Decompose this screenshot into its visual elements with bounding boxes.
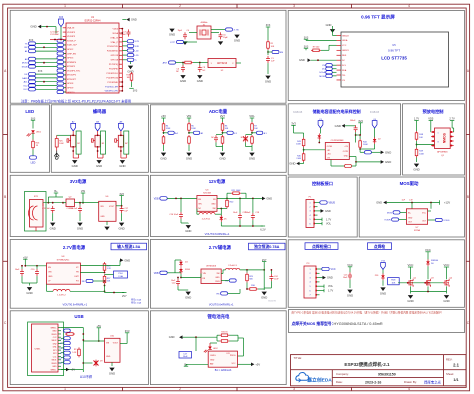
svg-text:+IN1: +IN1 bbox=[327, 154, 331, 156]
svg-text:SY6982QNC: SY6982QNC bbox=[57, 259, 70, 261]
svg-text:RUN: RUN bbox=[215, 281, 220, 283]
svg-text:GND: GND bbox=[30, 25, 36, 29]
ground left of crystal bbox=[169, 27, 174, 32]
svg-text:2: 2 bbox=[179, 4, 181, 8]
svg-text:3V3: 3V3 bbox=[291, 122, 296, 126]
svg-text:RES: RES bbox=[342, 55, 347, 57]
ground under C1 bbox=[267, 63, 269, 74]
svg-text:XTAL_P: XTAL_P bbox=[111, 41, 119, 44]
capacitor C24 bbox=[270, 274, 272, 277]
svg-text:2.7V: 2.7V bbox=[449, 117, 455, 121]
ground under C15 bbox=[50, 221, 55, 226]
wire U6 output bbox=[116, 205, 122, 207]
svg-text:I-1D: I-1D bbox=[135, 50, 140, 52]
transistor pack A8 bbox=[95, 135, 100, 147]
svg-text:GND: GND bbox=[106, 356, 111, 358]
svg-text:GND: GND bbox=[407, 299, 413, 303]
svg-text:+5V: +5V bbox=[161, 114, 166, 118]
svg-text:ANT: ANT bbox=[163, 62, 168, 65]
net port column inner bbox=[57, 39, 64, 42]
svg-text:SHELL: SHELL bbox=[51, 327, 57, 329]
flag VC1 pentagon charge bbox=[318, 121, 323, 129]
svg-text:GND: GND bbox=[380, 291, 386, 295]
svg-text:GND: GND bbox=[261, 296, 267, 300]
led LED2 charge indicator bbox=[208, 347, 212, 350]
svg-text:LED2: LED2 bbox=[213, 348, 218, 350]
port X_TN right of crystal bbox=[211, 29, 225, 31]
ic U2 ANT3216 antenna bbox=[208, 59, 236, 68]
capacitor C17 1uF bbox=[121, 206, 123, 209]
port EN bbox=[267, 51, 269, 53]
resistor R49 bbox=[416, 148, 418, 150]
svg-text:GND: GND bbox=[376, 201, 382, 205]
svg-text:VBUS: VBUS bbox=[51, 363, 57, 365]
svg-text:B: B bbox=[4, 195, 6, 199]
resistor R43 bbox=[303, 138, 305, 140]
svg-text:VDD3P3: VDD3P3 bbox=[67, 32, 76, 34]
wire charger right loop bbox=[238, 337, 244, 339]
svg-text:C19: C19 bbox=[409, 200, 414, 202]
svg-text:GND: GND bbox=[185, 296, 191, 300]
wire antenna net bbox=[176, 62, 184, 64]
svg-text:D+: D+ bbox=[60, 348, 62, 350]
svg-text:GND: GND bbox=[100, 216, 105, 218]
svg-text:Q1: Q1 bbox=[441, 155, 445, 157]
svg-text:SS8540: SS8540 bbox=[431, 260, 439, 262]
svg-text:2: 2 bbox=[309, 273, 310, 275]
svg-text:2: 2 bbox=[179, 387, 181, 391]
svg-text:OUTA: OUTA bbox=[327, 145, 333, 148]
svg-text:GND: GND bbox=[385, 150, 391, 154]
resistor R32 bbox=[220, 340, 222, 342]
section box ADC battery monitor bbox=[150, 105, 286, 173]
svg-text:Company:: Company: bbox=[336, 372, 349, 376]
svg-text:LED: LED bbox=[31, 162, 36, 165]
svg-text:GND: GND bbox=[211, 204, 216, 206]
ground flag top right of U1 bbox=[126, 18, 129, 22]
ground under C6 bbox=[180, 74, 185, 79]
U1 left pins bbox=[63, 27, 66, 29]
capacitor C14 1uF bbox=[79, 206, 81, 209]
svg-text:-IN1: -IN1 bbox=[327, 150, 330, 152]
svg-text:ESP32便携点焊机-2.1: ESP32便携点焊机-2.1 bbox=[344, 361, 390, 368]
svg-text:SDA: SDA bbox=[342, 69, 347, 72]
net flag +5V usb bottom bbox=[66, 368, 69, 372]
zener diode ZD1 bbox=[381, 275, 385, 278]
svg-text:AP30H80D: AP30H80D bbox=[437, 151, 448, 154]
wire input rail 2.7v bbox=[25, 265, 46, 267]
ground under C16 bbox=[186, 224, 191, 229]
svg-text:10uF: 10uF bbox=[15, 269, 20, 271]
ic U7 gate driver bbox=[406, 209, 427, 225]
svg-text:R21 100K: R21 100K bbox=[232, 190, 242, 192]
svg-text:2V7: 2V7 bbox=[220, 114, 225, 118]
svg-text:U10: U10 bbox=[110, 336, 115, 338]
section box capacitor charge control bbox=[288, 104, 400, 175]
svg-text:5: 5 bbox=[309, 286, 310, 288]
svg-text:SS34: SS34 bbox=[185, 269, 191, 271]
svg-text:D+: D+ bbox=[60, 338, 62, 340]
U1 right pins bbox=[119, 28, 122, 30]
svg-text:GND: GND bbox=[52, 366, 57, 368]
resistor R25 100K bbox=[55, 139, 58, 148]
svg-text:GND: GND bbox=[48, 276, 53, 278]
svg-text:A: A bbox=[4, 69, 7, 73]
svg-text:4: 4 bbox=[408, 387, 410, 391]
capacitor C6 NC bbox=[182, 63, 184, 66]
capacitor C1 1uF bbox=[267, 56, 269, 59]
svg-text:A.1: A.1 bbox=[175, 132, 179, 135]
ground right of C5 bbox=[234, 33, 239, 38]
svg-text:10K: 10K bbox=[271, 46, 275, 48]
svg-text:HYG006N04LS1TA / 0.45mR: HYG006N04LS1TA / 0.45mR bbox=[334, 322, 383, 326]
title block frame bbox=[291, 355, 467, 386]
svg-text:A3: A3 bbox=[25, 58, 28, 61]
mosfet Q3 gun bbox=[425, 282, 427, 284]
svg-text:X.TP: X.TP bbox=[170, 42, 175, 44]
svg-text:注意：PR6在板上印,PR7在板上印 ADC1-P0,: 注意：PR6在板上印,PR7在板上印 ADC1-P0,P1,P2,P3,P4 A… bbox=[21, 98, 131, 103]
svg-text:2.7V直电源: 2.7V直电源 bbox=[63, 244, 86, 251]
flag VT5 zener branch bbox=[381, 263, 386, 270]
svg-text:VCC: VCC bbox=[331, 268, 336, 271]
svg-text:CC1: CC1 bbox=[53, 356, 57, 358]
ground under C14 bbox=[77, 221, 82, 226]
wire fb node charge bbox=[360, 148, 375, 150]
ground aux right bbox=[263, 270, 265, 288]
inductor L3 2.2uH bbox=[226, 268, 240, 270]
svg-text:GPIO3: GPIO3 bbox=[67, 58, 74, 60]
svg-text:2.2uH L1: 2.2uH L1 bbox=[202, 219, 211, 221]
svg-text:SCLA: SCLA bbox=[319, 71, 325, 74]
svg-text:GND: GND bbox=[124, 258, 130, 262]
svg-text:GND21: GND21 bbox=[342, 50, 350, 52]
wire lcd vcc rail bbox=[306, 39, 337, 41]
svg-text:D5: D5 bbox=[224, 218, 227, 220]
label independent current limit 0.78A bbox=[249, 243, 286, 250]
inductor L1 2.2uH bbox=[199, 212, 215, 214]
svg-text:U2: U2 bbox=[221, 70, 224, 72]
svg-text:100K: 100K bbox=[419, 153, 424, 155]
svg-text:2023-2-16: 2023-2-16 bbox=[365, 380, 381, 384]
svg-text:3V3: 3V3 bbox=[59, 17, 64, 19]
svg-text:CS: CS bbox=[322, 65, 326, 67]
battery BT1 holder bbox=[25, 192, 47, 232]
svg-text:1: 1 bbox=[64, 4, 66, 8]
svg-text:P14/SPICS0: P14/SPICS0 bbox=[107, 77, 119, 79]
svg-text:8223A: 8223A bbox=[414, 229, 420, 232]
svg-text:R31 1K: R31 1K bbox=[221, 332, 228, 334]
svg-text:X.TN: X.TN bbox=[234, 29, 239, 31]
section box welding gun bbox=[288, 240, 464, 307]
svg-text:GND: GND bbox=[127, 70, 133, 74]
ground port charge right 2 bbox=[349, 156, 356, 158]
wire sw rail bbox=[221, 208, 227, 210]
svg-text:100nF: 100nF bbox=[120, 34, 126, 36]
svg-text:FB: FB bbox=[82, 281, 85, 283]
svg-text:KL2: KL2 bbox=[24, 85, 29, 87]
svg-text:GND: GND bbox=[326, 23, 332, 27]
wire gun drain tops bbox=[410, 274, 412, 279]
wires between port columns bbox=[36, 43, 58, 45]
flag C6 pentagon charge right bbox=[372, 121, 377, 129]
svg-text:C3 100nF: C3 100nF bbox=[50, 34, 60, 36]
svg-text:2V7: 2V7 bbox=[122, 294, 127, 298]
resistor R44 bbox=[359, 135, 361, 139]
buzzer body A9 bbox=[124, 131, 129, 154]
svg-text:GND: GND bbox=[169, 33, 175, 37]
resistor R9 backlight bbox=[311, 49, 313, 51]
ground gun mos 3 bbox=[446, 292, 448, 294]
port VBUS control bbox=[318, 202, 321, 204]
svg-text:GND: GND bbox=[299, 58, 305, 62]
svg-text:2: 2 bbox=[309, 207, 310, 209]
svg-text:+12V: +12V bbox=[444, 201, 450, 205]
wire fb node bbox=[80, 272, 104, 274]
svg-text:GND: GND bbox=[347, 294, 353, 298]
ic U1 ESP32-C3FH4 bbox=[66, 23, 119, 93]
svg-text:C14 1uF: C14 1uF bbox=[70, 208, 78, 210]
diode D5 SS34 bbox=[217, 208, 221, 210]
svg-text:GND: GND bbox=[26, 291, 32, 295]
svg-text:D4: D4 bbox=[185, 261, 188, 263]
svg-text:3V3: 3V3 bbox=[38, 70, 43, 73]
svg-text:KL3: KL3 bbox=[24, 89, 29, 91]
svg-text:M1LB: M1LB bbox=[22, 66, 28, 68]
svg-text:GPIO18: GPIO18 bbox=[111, 60, 119, 62]
resistor R30 horizontal bbox=[248, 288, 250, 290]
svg-text:GND: GND bbox=[52, 331, 57, 333]
capacitor C20 bbox=[36, 269, 38, 272]
svg-text:P13/SPICLK: P13/SPICLK bbox=[107, 73, 119, 75]
svg-text:VIN: VIN bbox=[187, 114, 192, 118]
ground port right 2.7v bbox=[80, 265, 120, 267]
svg-text:档位2:2.0A: 档位2:2.0A bbox=[131, 297, 141, 301]
svg-text:VOL: VOL bbox=[328, 285, 334, 288]
svg-text:VDD3P3_CPU: VDD3P3_CPU bbox=[105, 91, 119, 93]
section box LED bbox=[10, 105, 49, 173]
wire usb vbus vertical bbox=[82, 328, 84, 373]
svg-text:B1.B.7B: B1.B.7B bbox=[268, 300, 276, 302]
svg-text:D2: D2 bbox=[378, 139, 381, 141]
svg-text:VD5: VD5 bbox=[428, 117, 434, 121]
ground adc +5V bbox=[163, 145, 165, 151]
ground under U6 bbox=[106, 221, 108, 225]
capacitor NC VOL bbox=[246, 134, 253, 136]
svg-text:VOUT: VOUT bbox=[109, 206, 115, 208]
svg-text:输入恒流1.5A: 输入恒流1.5A bbox=[117, 244, 140, 249]
connector USB1 type-c bbox=[32, 324, 59, 372]
svg-text:5: 5 bbox=[309, 219, 310, 221]
svg-text:XTAL_N: XTAL_N bbox=[110, 36, 118, 39]
svg-text:D9: D9 bbox=[100, 361, 103, 363]
svg-text:1.7V: 1.7V bbox=[328, 290, 333, 293]
section box 0.96 TFT display bbox=[288, 11, 464, 101]
svg-text:B1 × 1200mAh: B1 × 1200mAh bbox=[215, 369, 232, 372]
svg-text:56K: 56K bbox=[249, 279, 253, 281]
svg-text:+5V: +5V bbox=[96, 324, 101, 328]
svg-text:LED1: LED1 bbox=[36, 131, 42, 133]
svg-text:100K: 100K bbox=[363, 144, 368, 146]
svg-text:MTDO/P7: MTDO/P7 bbox=[67, 79, 77, 81]
svg-text:Q3: Q3 bbox=[431, 277, 434, 279]
thermistor RT1 bbox=[330, 160, 332, 167]
port FB 2.7v bbox=[93, 280, 105, 282]
power flag 3V3 top of U1 bbox=[59, 19, 64, 27]
svg-text:GND: GND bbox=[180, 79, 186, 83]
port X_TP left of crystal bbox=[177, 40, 184, 43]
port LED out bbox=[32, 150, 34, 156]
svg-text:CC1: CC1 bbox=[58, 358, 62, 360]
svg-text:MOS驱动: MOS驱动 bbox=[400, 180, 419, 187]
capacitor C18 100nF output bbox=[252, 213, 254, 216]
svg-text:VOUR: VOUR bbox=[384, 220, 391, 222]
ground buzzer A8 bbox=[96, 159, 101, 164]
net flag 2V7 output bbox=[122, 292, 126, 294]
net label 1.7V control bbox=[318, 218, 323, 220]
svg-text:1: 1 bbox=[309, 269, 310, 271]
port FB2 aux bbox=[229, 279, 236, 282]
svg-text:LNA_IN: LNA_IN bbox=[67, 27, 75, 30]
svg-text:3: 3 bbox=[293, 4, 295, 8]
svg-text:Q2: Q2 bbox=[414, 277, 417, 279]
svg-text:嘉立创EDA: 嘉立创EDA bbox=[306, 376, 332, 383]
svg-text:CHIP_EN: CHIP_EN bbox=[67, 53, 76, 55]
port MOS input bbox=[393, 211, 400, 214]
wire gun source bus bbox=[410, 286, 412, 291]
ground under C22 bbox=[178, 289, 188, 291]
svg-text:GND: GND bbox=[50, 227, 56, 231]
svg-text:D6: D6 bbox=[431, 263, 434, 265]
net flag +5V charger bbox=[251, 363, 254, 367]
ground port gun bbox=[320, 277, 323, 279]
svg-text:100K: 100K bbox=[296, 143, 301, 145]
svg-text:MTMS/P4: MTMS/P4 bbox=[67, 62, 77, 64]
svg-text:GND: GND bbox=[234, 39, 240, 43]
wire divider to Q1 bbox=[417, 144, 435, 146]
svg-text:VCC: VCC bbox=[408, 263, 414, 267]
resistor R28 label box bbox=[388, 278, 400, 285]
svg-text:C4: C4 bbox=[187, 30, 190, 32]
svg-text:BZ: BZ bbox=[77, 143, 80, 145]
lcd signal ports bbox=[326, 64, 333, 67]
svg-text:1K: 1K bbox=[36, 145, 39, 147]
svg-text:GND: GND bbox=[265, 80, 271, 84]
svg-text:GPIO19: GPIO19 bbox=[111, 55, 119, 57]
svg-text:Date:: Date: bbox=[336, 380, 343, 384]
svg-text:2V7: 2V7 bbox=[262, 258, 267, 262]
svg-text:10K: 10K bbox=[391, 283, 395, 285]
svg-text:2.0A: 2.0A bbox=[118, 275, 123, 278]
svg-text:1/1: 1/1 bbox=[453, 378, 458, 382]
svg-text:1: 1 bbox=[64, 387, 66, 391]
section box buzzer bbox=[51, 105, 148, 173]
svg-text:956391150: 956391150 bbox=[378, 373, 396, 377]
svg-text:VDB: VDB bbox=[154, 273, 159, 275]
resistor R16 1K bbox=[32, 140, 34, 142]
svg-text:VDD3P3_RTC: VDD3P3_RTC bbox=[67, 70, 81, 72]
svg-text:GND: GND bbox=[131, 18, 137, 22]
svg-text:5.1K: 5.1K bbox=[72, 352, 77, 354]
svg-text:331B.1B: 331B.1B bbox=[293, 111, 303, 114]
svg-text:预放电控制: 预放电控制 bbox=[423, 108, 444, 115]
svg-text:1.5uH L2: 1.5uH L2 bbox=[57, 294, 66, 296]
svg-text:I-1D: I-1D bbox=[135, 55, 140, 57]
ground port right 12v bbox=[262, 197, 265, 201]
resistor R45 bbox=[303, 152, 305, 154]
capacitor C15 1uF bbox=[52, 206, 54, 209]
svg-text:P1: P1 bbox=[309, 197, 312, 199]
svg-text:P17/SPIQ: P17/SPIQ bbox=[109, 64, 119, 66]
svg-text:MOSI: MOSI bbox=[22, 63, 28, 65]
svg-text:SW: SW bbox=[216, 273, 219, 275]
ground flag charge left bbox=[303, 162, 305, 164]
svg-text:K.1: K.1 bbox=[234, 133, 238, 135]
capacitor C7 bbox=[128, 29, 130, 32]
svg-text:C16 10uF: C16 10uF bbox=[169, 214, 179, 216]
svg-text:GPIO10: GPIO10 bbox=[67, 92, 75, 94]
red vertical bus right of U1 bbox=[121, 29, 123, 91]
lcd left pins bbox=[337, 35, 342, 37]
junction discharge divider bbox=[416, 144, 418, 146]
svg-text:VOUT: VOUT bbox=[113, 343, 119, 345]
svg-text:VOUT/0.6×RN/RL+1: VOUT/0.6×RN/RL+1 bbox=[209, 303, 234, 307]
svg-text:VDB: VDB bbox=[154, 198, 159, 200]
ground under ZD1 bbox=[380, 286, 385, 291]
probe claw symbol bbox=[54, 151, 59, 158]
resistor R3 top bbox=[64, 329, 71, 332]
svg-text:+5V: +5V bbox=[70, 368, 75, 372]
svg-text:GND: GND bbox=[385, 160, 391, 164]
svg-text:MOSI: MOSI bbox=[319, 76, 325, 78]
capacitor C22 bbox=[177, 279, 179, 282]
svg-text:U10不焊: U10不焊 bbox=[80, 374, 93, 379]
svg-text:U6: U6 bbox=[106, 196, 110, 198]
svg-text:C22: C22 bbox=[172, 283, 177, 285]
svg-text:VCC: VCC bbox=[347, 263, 353, 267]
svg-text:CC2: CC2 bbox=[53, 337, 57, 339]
svg-text:2.1: 2.1 bbox=[453, 362, 459, 367]
svg-text:56K: 56K bbox=[107, 281, 111, 283]
svg-text:P12/SPIHD: P12/SPIHD bbox=[108, 82, 119, 84]
section box 2.7V aux power bbox=[150, 240, 286, 309]
ground under C8 bbox=[197, 74, 202, 79]
svg-text:ESP32-C3FH4: ESP32-C3FH4 bbox=[85, 19, 101, 22]
svg-text:GND: GND bbox=[109, 372, 115, 376]
svg-text:4: 4 bbox=[309, 215, 310, 217]
svg-text:U8: U8 bbox=[62, 256, 66, 258]
svg-text:GPIO8: GPIO8 bbox=[67, 83, 74, 85]
capacitor C17b 10uF output bbox=[239, 213, 241, 216]
svg-text:15pF: 15pF bbox=[177, 30, 182, 32]
svg-text:331B.1B: 331B.1B bbox=[370, 111, 380, 114]
svg-text:3: 3 bbox=[309, 277, 310, 279]
port ANT bbox=[169, 61, 176, 64]
svg-text:蜂鸣器: 蜂鸣器 bbox=[93, 108, 107, 115]
svg-text:12V电源: 12V电源 bbox=[209, 178, 226, 185]
usb data port column bbox=[64, 337, 71, 340]
net port column left outer bbox=[29, 42, 36, 45]
wire vcc to rail bbox=[430, 203, 432, 209]
svg-text:NMOS: NMOS bbox=[443, 132, 447, 143]
svg-text:SBU2: SBU2 bbox=[52, 340, 57, 342]
svg-text:120K: 120K bbox=[166, 128, 171, 130]
svg-text:15pF: 15pF bbox=[223, 37, 228, 39]
svg-text:LEDA: LEDA bbox=[342, 39, 348, 42]
svg-text:储能电容适配充电采样控制: 储能电容适配充电采样控制 bbox=[313, 108, 361, 114]
border column tick marks bbox=[122, 4, 124, 8]
diode D4 pair bbox=[174, 260, 176, 273]
capacitor C25 bbox=[349, 272, 351, 275]
